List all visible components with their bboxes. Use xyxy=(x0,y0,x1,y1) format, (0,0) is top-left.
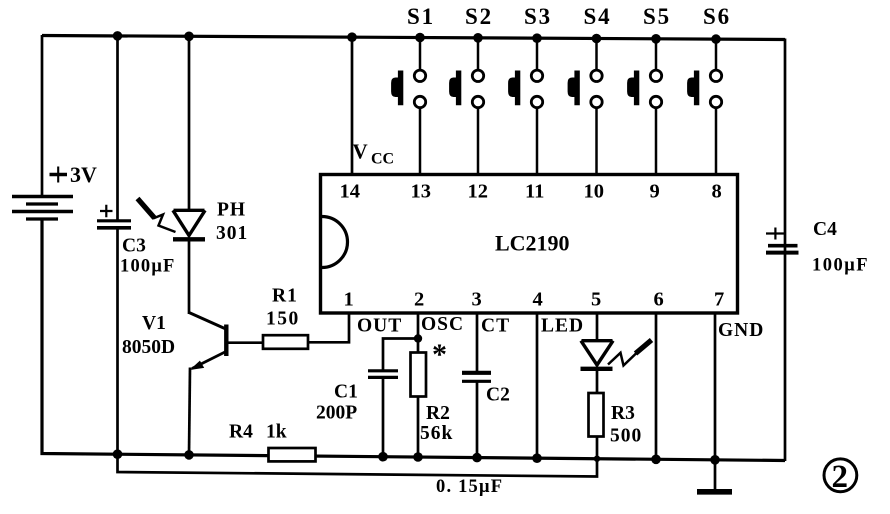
node junction on top rail x=189 xyxy=(184,32,194,42)
svg-text:1k: 1k xyxy=(266,422,287,443)
node junction R3/bus xyxy=(594,456,600,462)
battery +3V short plate 2 xyxy=(26,217,58,220)
wire right supply vertical xyxy=(784,39,787,462)
wire top rail to C3 xyxy=(116,35,119,220)
capacitor C3 bottom plate xyxy=(97,226,131,230)
wire VCC pin 14 to rail xyxy=(351,37,354,176)
capacitor C4 bottom plate xyxy=(766,251,799,255)
transistor V1 base bar xyxy=(224,325,228,357)
svg-text:*: * xyxy=(432,338,447,371)
svg-text:301: 301 xyxy=(216,223,248,244)
wire pin 2 OSC node xyxy=(417,313,420,353)
switch S5 xyxy=(628,4,671,175)
wire pin 6 to bus xyxy=(655,313,658,460)
capacitor C4 top plate xyxy=(768,244,798,248)
svg-text:7: 7 xyxy=(714,289,724,311)
svg-text:5: 5 xyxy=(591,289,601,311)
svg-text:GND: GND xyxy=(718,320,764,341)
wire base to R1 xyxy=(226,341,265,344)
switch S1 xyxy=(392,4,435,175)
svg-text:1: 1 xyxy=(344,289,354,311)
svg-text:S5: S5 xyxy=(643,4,671,29)
wire pin 4 to bus xyxy=(536,313,539,459)
svg-text:150: 150 xyxy=(266,309,300,330)
svg-text:100μF: 100μF xyxy=(120,257,176,277)
LED cathode bar xyxy=(581,367,613,371)
wire emitter to bus xyxy=(189,368,190,455)
wire PH to collector of V1 xyxy=(188,239,191,314)
svg-text:OUT: OUT xyxy=(357,316,402,337)
svg-text:9: 9 xyxy=(650,181,660,203)
capacitor C1 bottom plate xyxy=(368,376,398,379)
svg-text:PH: PH xyxy=(217,200,246,221)
photodiode PH301 cathode bar xyxy=(173,237,205,241)
battery +3V long plate 2 xyxy=(12,210,73,214)
switch S4 xyxy=(568,4,611,175)
node junction on top rail x=117.5 xyxy=(113,31,123,41)
LED light arrow bolt xyxy=(608,340,652,366)
svg-text:LED: LED xyxy=(541,316,584,337)
svg-text:56k: 56k xyxy=(420,423,453,444)
svg-text:2: 2 xyxy=(414,289,424,311)
svg-text:3: 3 xyxy=(472,289,482,311)
svg-text:6: 6 xyxy=(654,289,664,311)
wire C2 to bus xyxy=(476,382,479,459)
transistor V1 collector diagonal xyxy=(189,313,227,330)
svg-text:C4: C4 xyxy=(813,219,837,240)
node junction on bus x=117.5 xyxy=(113,449,123,459)
switch S3 xyxy=(509,4,552,175)
capacitor C2 bottom plate xyxy=(462,380,491,383)
svg-text:S1: S1 xyxy=(407,4,435,29)
wire R1 to pin 1 xyxy=(306,313,349,342)
wire C3 to bus xyxy=(116,228,119,455)
node junction on top rail x=716 xyxy=(711,34,721,44)
resistor R1 body xyxy=(263,335,308,349)
svg-text:11: 11 xyxy=(525,181,544,203)
resistor R3 body xyxy=(589,393,604,437)
capacitor C3 polarity plus xyxy=(100,205,113,217)
capacitor C3 top plate xyxy=(97,219,131,222)
switch S6 xyxy=(688,4,731,175)
node junction on top rail x=478 xyxy=(473,33,483,43)
svg-text:10: 10 xyxy=(584,181,605,203)
wire pin 5 to LED xyxy=(596,313,599,341)
svg-text:500: 500 xyxy=(610,426,642,447)
transistor V1 emitter with arrow xyxy=(191,352,226,370)
svg-text:8: 8 xyxy=(712,181,722,203)
node junction on top rail x=596.5 xyxy=(592,34,602,44)
svg-text:C1: C1 xyxy=(334,382,358,403)
svg-text:R3: R3 xyxy=(611,403,635,424)
resistor R2 body xyxy=(411,353,427,397)
wire left battery branch vertical xyxy=(41,35,44,196)
svg-text:C2: C2 xyxy=(486,385,510,406)
svg-text:R1: R1 xyxy=(272,286,298,307)
wire top rail to PH diode xyxy=(188,35,191,211)
svg-text:LC2190: LC2190 xyxy=(495,231,570,256)
svg-text:R4: R4 xyxy=(229,422,253,443)
svg-text:3V: 3V xyxy=(70,162,97,187)
svg-text:OSC: OSC xyxy=(421,314,464,335)
node junction on bus x=656 xyxy=(651,455,661,465)
svg-text:13: 13 xyxy=(411,181,432,203)
svg-text:0. 15μF: 0. 15μF xyxy=(436,477,503,497)
capacitor C4 polarity plus xyxy=(766,228,784,240)
svg-text:V: V xyxy=(353,140,368,164)
svg-text:R2: R2 xyxy=(426,403,450,424)
svg-text:S4: S4 xyxy=(584,4,612,29)
resistor R4 body xyxy=(269,448,316,461)
svg-text:V1: V1 xyxy=(142,313,166,334)
node junction on bus x=189 xyxy=(184,450,194,460)
capacitor C1 top plate xyxy=(368,369,398,372)
battery +3V long plate 1 xyxy=(12,195,73,199)
wire pin 7 GND to ground xyxy=(714,313,717,489)
node junction on bus x=537 xyxy=(532,453,542,463)
photodiode PH301 light arrow bolt xyxy=(138,199,176,233)
battery label +3V xyxy=(50,173,68,177)
wire C1 to bus xyxy=(382,378,385,457)
svg-text:CT: CT xyxy=(481,316,510,337)
svg-text:2: 2 xyxy=(832,459,849,495)
node junction on top rail x=352 xyxy=(347,32,357,42)
op-amp IC U1 LC2190 body xyxy=(321,175,738,314)
wire 0.15uF return line (lower) xyxy=(118,436,598,477)
LED diode triangle xyxy=(581,341,613,365)
svg-text:S6: S6 xyxy=(703,4,731,29)
svg-text:4: 4 xyxy=(533,289,543,311)
capacitor C2 top plate xyxy=(462,371,491,375)
wire battery negative to bottom bus xyxy=(42,220,785,461)
wire pin 3 CT to C2 xyxy=(476,313,479,371)
wire OSC to C1 xyxy=(383,339,418,372)
svg-text:200P: 200P xyxy=(316,403,357,424)
node junction on bus x=715 xyxy=(710,455,720,465)
switch S2 xyxy=(450,4,493,175)
svg-text:8050D: 8050D xyxy=(122,337,175,358)
node junction on top rail x=537 xyxy=(532,33,542,43)
node junction on top rail x=420 xyxy=(415,33,425,43)
node junction on bus x=418 xyxy=(413,452,423,462)
svg-text:S2: S2 xyxy=(465,4,493,29)
figure number circled 2 xyxy=(824,459,857,495)
ground symbol xyxy=(697,489,732,495)
svg-text:12: 12 xyxy=(468,181,489,203)
node junction on bus x=477 xyxy=(472,453,482,463)
node junction on top rail x=656 xyxy=(651,34,661,44)
wire LED to R3 xyxy=(596,369,599,395)
IC notch xyxy=(322,217,348,268)
svg-text:14: 14 xyxy=(340,181,361,203)
node junction on bus x=383 xyxy=(378,452,388,462)
wire top supply rail xyxy=(42,36,785,40)
wire R2 to bus xyxy=(417,396,420,458)
node OSC junction xyxy=(414,334,422,342)
svg-text:S3: S3 xyxy=(524,4,552,29)
photodiode PH301 triangle xyxy=(173,210,205,235)
svg-text:CC: CC xyxy=(371,151,394,168)
battery +3V short plate 1 xyxy=(26,202,58,205)
svg-text:C3: C3 xyxy=(122,236,146,257)
svg-text:100μF: 100μF xyxy=(812,256,869,276)
